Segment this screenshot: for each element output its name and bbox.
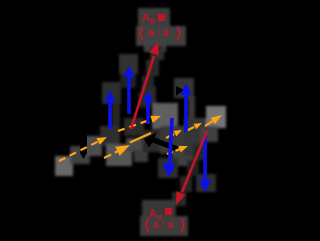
svg-text:a↑a: a↑a (153, 219, 175, 231)
svg-text:a↓a: a↓a (148, 27, 170, 39)
svg-text:⟩: ⟩ (176, 25, 182, 42)
svg-text:⟩: ⟩ (180, 217, 186, 234)
svg-text:⟨: ⟨ (144, 217, 150, 234)
svg-text:⟨: ⟨ (138, 25, 144, 42)
